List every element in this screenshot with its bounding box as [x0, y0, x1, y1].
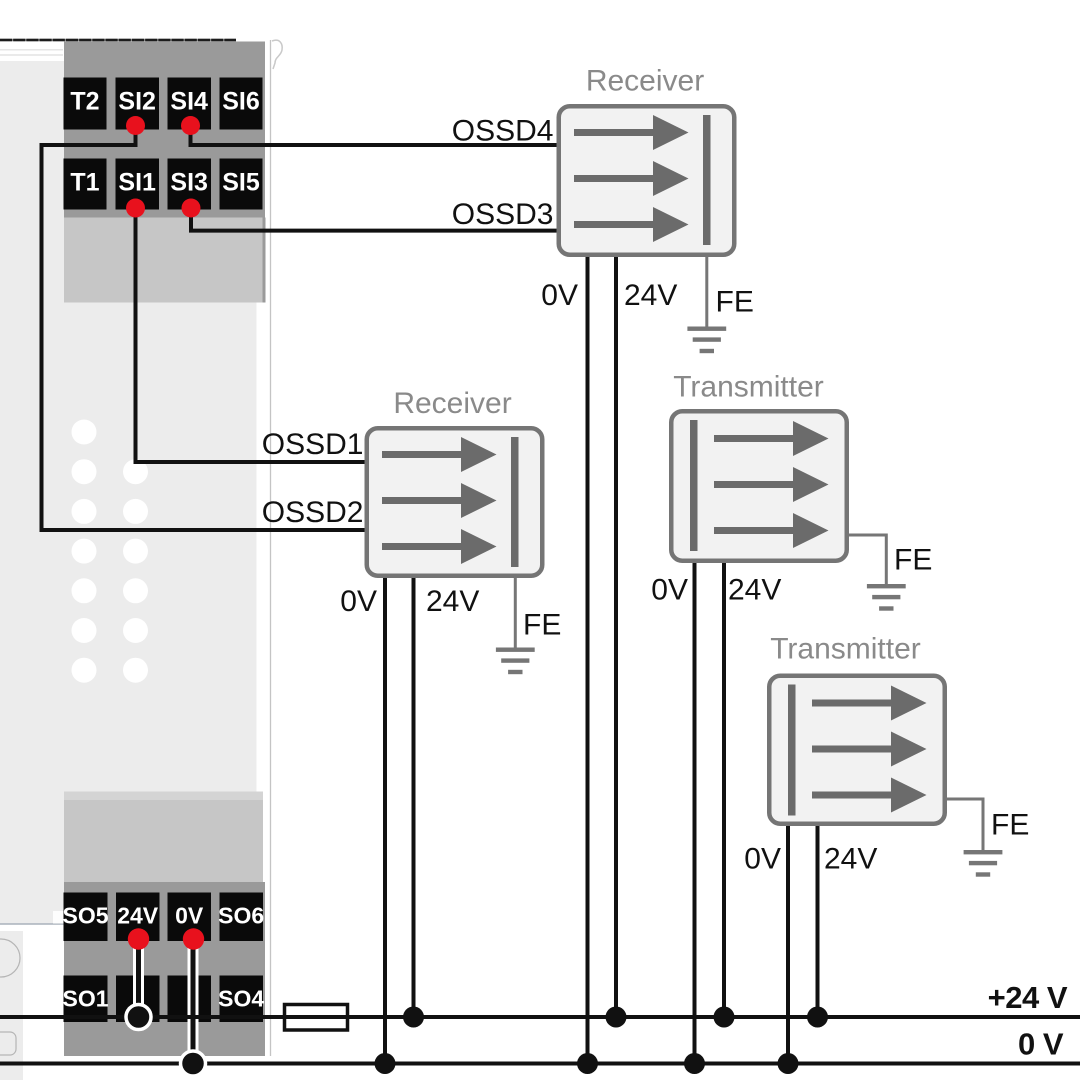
svg-text:SI4: SI4	[170, 88, 208, 116]
terminal SO1	[64, 976, 108, 1023]
junction transmitter B3 0V	[684, 1053, 705, 1074]
svg-text:0V: 0V	[651, 574, 688, 607]
white tab left of SO5	[53, 911, 64, 924]
junction receiver B1 24V	[606, 1007, 627, 1028]
svg-text:24V: 24V	[624, 279, 677, 312]
white vent dots column 2	[123, 459, 148, 683]
terminal SO4	[220, 976, 264, 1023]
+24V rail	[0, 1015, 1080, 1019]
terminal SI6	[220, 78, 263, 130]
terminal 0V	[168, 893, 212, 942]
receiver B1 beam arrow 3	[574, 207, 689, 242]
receiver B2 beam arrow 3	[382, 529, 497, 564]
terminal SI2	[116, 78, 160, 130]
svg-text:FE: FE	[523, 609, 561, 642]
svg-text:24V: 24V	[824, 843, 877, 876]
terminal pin 0V (red)	[183, 928, 204, 949]
terminal SO6	[220, 893, 264, 942]
terminal pin SI3 (red)	[182, 199, 201, 218]
junction transmitter B4 0V	[778, 1053, 799, 1074]
terminal SI5	[220, 159, 263, 210]
svg-text:0V: 0V	[541, 279, 578, 312]
svg-text:FE: FE	[991, 809, 1029, 842]
white vent dots column 1	[72, 420, 97, 683]
wire receiver B2 0V to 0V rail	[383, 576, 387, 1064]
junction transmitter B4 24V	[807, 1007, 828, 1028]
svg-text:SI1: SI1	[118, 169, 156, 197]
junction 24V terminal on +24V rail	[126, 1005, 151, 1030]
wire transmitter B3 0V to 0V rail	[693, 561, 697, 1064]
terminal SI4	[168, 78, 212, 130]
bottom terminal panel upper section (light gray)	[64, 792, 263, 801]
svg-text:SI5: SI5	[222, 169, 260, 197]
0V rail	[0, 1062, 1080, 1066]
wire receiver B1 24V to +24V rail	[614, 255, 618, 1017]
junction receiver B2 24V	[403, 1007, 424, 1028]
svg-text:OSSD1: OSSD1	[262, 428, 364, 461]
receiver B2 light bar	[511, 437, 519, 567]
ground FE transmitter B3	[847, 535, 886, 584]
junction receiver B1 0V	[577, 1053, 598, 1074]
ground FE transmitter B4	[945, 799, 983, 850]
svg-text:T2: T2	[70, 88, 99, 116]
svg-text:T1: T1	[70, 169, 99, 197]
terminal pin SI4 (red)	[181, 116, 200, 135]
svg-text:0 V: 0 V	[1018, 1027, 1064, 1062]
svg-text:SI3: SI3	[170, 169, 208, 197]
wire transmitter B4 0V to 0V rail	[786, 824, 790, 1064]
svg-text:24V: 24V	[117, 903, 159, 929]
housing screw hole arc bottom left	[0, 939, 20, 977]
receiver B2 box	[367, 428, 543, 576]
svg-text:FE: FE	[894, 544, 932, 577]
terminal blank SO3	[168, 976, 212, 1023]
receiver B1 light bar	[703, 115, 711, 245]
transmitter B3 beam arrow 1	[714, 421, 829, 456]
wire transmitter B3 24V to +24V rail	[722, 561, 726, 1017]
terminal SI3	[168, 159, 212, 210]
wire SI3 to OSSD3 (receiver B1)	[191, 210, 559, 231]
svg-text:SI2: SI2	[118, 88, 156, 116]
wire SI1 to OSSD1 (receiver B2)	[136, 210, 367, 462]
terminal 24V	[116, 893, 160, 942]
junction 0V terminal on 0V rail	[181, 1051, 206, 1076]
controller right outline	[270, 40, 272, 1056]
svg-text:OSSD3: OSSD3	[452, 198, 554, 231]
transmitter B3 beam arrow 3	[714, 513, 829, 548]
svg-text:Receiver: Receiver	[586, 65, 704, 98]
bottom terminal panel (dark gray)	[64, 882, 265, 1056]
junction receiver B2 0V	[375, 1053, 396, 1074]
svg-text:OSSD4: OSSD4	[452, 115, 554, 148]
wire receiver B2 24V to +24V rail	[412, 576, 416, 1017]
wire 24V terminal to +24V rail (white cased)	[133, 939, 144, 1016]
ground FE receiver B2	[514, 576, 517, 648]
receiver B1 box	[559, 106, 735, 255]
wire 0V terminal to 0V rail (white cased)	[188, 939, 199, 1064]
terminal T2	[64, 78, 107, 130]
terminal pin SI2 (red)	[126, 116, 145, 135]
controller top thin seam lines	[0, 50, 63, 55]
receiver B1 beam arrow 2	[574, 161, 689, 196]
svg-text:SO1: SO1	[62, 986, 108, 1012]
top terminal panel lower section (light gray)	[263, 218, 266, 303]
wire SI4 to OSSD4 (receiver B1)	[191, 126, 559, 145]
svg-text:0V: 0V	[744, 843, 781, 876]
svg-text:Transmitter: Transmitter	[673, 371, 824, 404]
wire SI2 to OSSD2 (receiver B2)	[42, 126, 367, 530]
transmitter B3 light bar	[690, 420, 698, 551]
housing latch outline bottom left	[0, 1032, 16, 1055]
svg-text:24V: 24V	[728, 574, 781, 607]
transmitter B4 beam arrow 1	[812, 686, 927, 721]
transmitter B4 box	[769, 676, 945, 824]
terminal SI1	[116, 159, 160, 210]
transmitter B3 box	[671, 411, 847, 561]
svg-text:SO6: SO6	[218, 903, 264, 929]
svg-text:OSSD2: OSSD2	[262, 496, 364, 529]
terminal SO5	[64, 893, 108, 942]
transmitter B4 beam arrow 2	[812, 732, 927, 767]
svg-text:SI6: SI6	[222, 88, 260, 116]
svg-text:24V: 24V	[426, 585, 479, 618]
terminal blank SO2	[116, 976, 160, 1023]
svg-text:Transmitter: Transmitter	[770, 633, 921, 666]
receiver B2 beam arrow 1	[382, 437, 497, 472]
terminal pin SI1 (red)	[126, 199, 145, 218]
svg-text:+24 V: +24 V	[988, 980, 1068, 1015]
svg-text:FE: FE	[716, 286, 754, 319]
receiver B2 beam arrow 2	[382, 483, 497, 518]
transmitter B4 beam arrow 3	[812, 778, 927, 813]
top terminal panel (dark gray)	[64, 42, 265, 218]
wire clip curl top right	[272, 40, 282, 69]
receiver B1 beam arrow 1	[574, 115, 689, 150]
transmitter B4 light bar	[788, 685, 796, 816]
svg-text:SO4: SO4	[218, 986, 264, 1012]
wire transmitter B4 24V to +24V rail	[816, 824, 820, 1017]
transmitter B3 beam arrow 2	[714, 467, 829, 502]
fuse F1	[285, 1005, 348, 1031]
wire receiver B1 0V to 0V rail	[586, 255, 590, 1064]
controller body (light gray housing)	[0, 61, 257, 924]
svg-text:0V: 0V	[175, 903, 204, 929]
controller top edge dashed line	[0, 39, 236, 42]
ground FE receiver B1	[705, 255, 708, 327]
junction transmitter B3 24V	[714, 1007, 735, 1028]
terminal pin 24V (red)	[128, 928, 149, 949]
terminal T1	[64, 159, 107, 210]
svg-text:Receiver: Receiver	[393, 387, 511, 420]
svg-text:SO5: SO5	[62, 903, 108, 929]
controller bottom seam line	[0, 923, 64, 925]
svg-text:0V: 0V	[340, 585, 377, 618]
